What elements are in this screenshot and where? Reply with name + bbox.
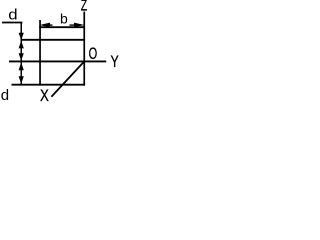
svg-text:Z: Z <box>81 0 87 14</box>
arrowhead up below tick C <box>19 62 24 70</box>
b dimension right shaft + arrow <box>70 24 76 25</box>
arrowhead down at tick D <box>19 76 24 84</box>
svg-text:b: b <box>60 10 68 26</box>
background <box>0 0 122 103</box>
svg-text:d: d <box>8 7 17 23</box>
X axis diagonal <box>51 61 84 96</box>
internal line / tick B <box>21 39 85 41</box>
extension tick A (top-left, under d label) <box>2 22 22 24</box>
box right edge + Z axis <box>83 12 85 86</box>
box top edge <box>39 26 85 28</box>
svg-text:X: X <box>40 87 49 103</box>
svg-text:Y: Y <box>111 53 119 71</box>
Y axis line / tick C <box>9 61 106 63</box>
dimension leader vertical line (left chain at x=21.2) <box>21 22 23 84</box>
b dimension left arrow <box>40 23 51 28</box>
box left edge (extends up as b-dim tick) <box>39 20 41 86</box>
svg-text:O: O <box>89 44 98 63</box>
bottom edge / tick D <box>12 84 85 86</box>
svg-text:d: d <box>1 87 9 103</box>
arrowhead down at tick B <box>19 33 24 41</box>
arrowhead up below tick B <box>19 41 24 49</box>
arrowhead down at tick C <box>19 53 24 60</box>
cross-section diagram: square section with top plate, axes O-X-Y-Z, dims b and d <box>0 0 122 103</box>
